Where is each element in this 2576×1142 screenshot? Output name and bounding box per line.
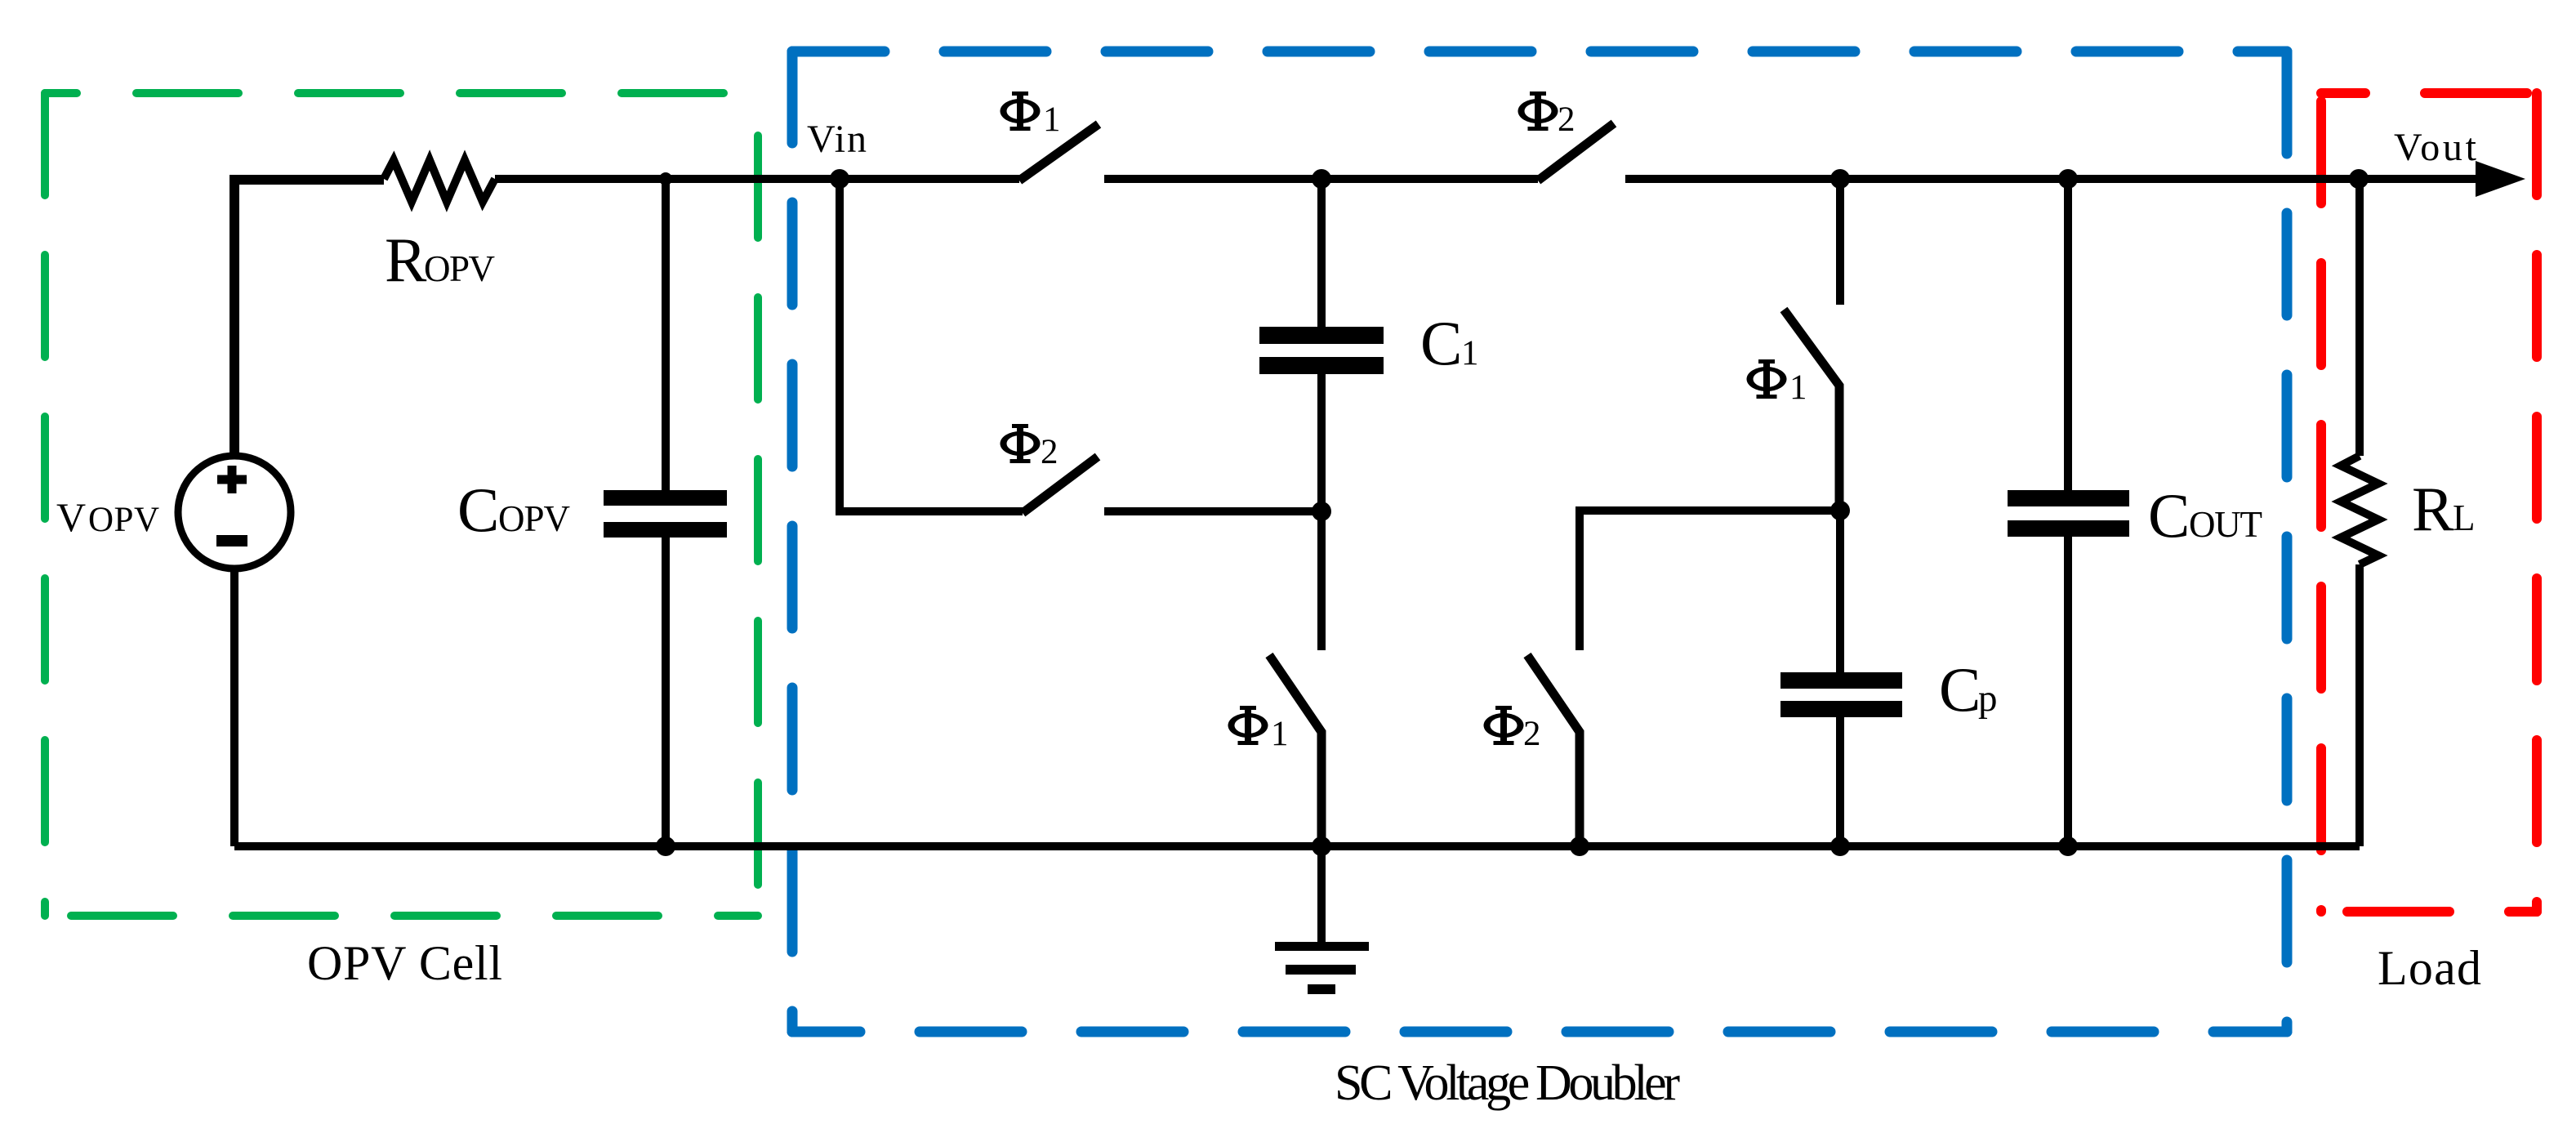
node: COUT bottom on rail <box>2058 836 2078 856</box>
wire: from top rail down to phi1 vertical switch <box>1836 179 1844 305</box>
svg-text:C: C <box>1939 654 1981 725</box>
node: Cp top <box>1830 501 1850 520</box>
node: COPV bottom on rail <box>656 836 675 856</box>
label phi1 vertical <box>1747 367 1787 391</box>
node: C1 bottom <box>1312 502 1331 521</box>
wire: bottom rail <box>234 842 2360 850</box>
node: Cp bottom on rail <box>1830 836 1850 856</box>
capacitor C1 <box>1259 327 1384 374</box>
svg-text:Load: Load <box>2378 941 2481 995</box>
svg-text:OPV Cell: OPV Cell <box>307 936 502 990</box>
wire: COUT top lead <box>2064 179 2072 490</box>
wire: COPV top lead <box>662 179 670 490</box>
svg-text:R: R <box>385 225 427 295</box>
wire: top rail from phi2 to vout arrow <box>1625 175 2479 183</box>
wire: COPV bottom lead <box>662 538 670 846</box>
svg-text:L: L <box>2453 497 2476 538</box>
switch phi1 bottom blade <box>1269 655 1321 846</box>
wire: mid row to C1 bottom node <box>1104 507 1321 515</box>
wire: third row from phi2 bottom up-corner to Cp node <box>1580 511 1840 650</box>
wire: top rail from resistor to switch phi1 pivot <box>495 175 1019 183</box>
wire: COUT bottom lead <box>2064 537 2072 846</box>
svg-text:1: 1 <box>1043 100 1061 139</box>
switch phi2 bottom blade <box>1527 655 1580 846</box>
wire: RL bottom lead to rail corner <box>2355 564 2364 846</box>
voltage source VOPV <box>178 456 291 569</box>
node Vin <box>830 169 849 189</box>
switch phi2 top blade <box>1538 123 1614 181</box>
switch phi1 top blade <box>1019 124 1099 181</box>
svg-text:R: R <box>2412 474 2454 544</box>
wire: top rail between phi1 and phi2 <box>1104 175 1538 183</box>
svg-text:1: 1 <box>1461 334 1479 372</box>
label phi2 mid <box>1001 431 1041 456</box>
node: top rail above phi1 vertical <box>1830 169 1850 189</box>
switch phi1 vertical blade <box>1784 310 1839 511</box>
Vout arrow <box>2476 161 2525 197</box>
switch phi2 mid blade <box>1023 457 1098 513</box>
capacitor COPV <box>604 490 727 538</box>
node: ground junction on rail <box>1312 836 1331 856</box>
wire: Cp top lead <box>1836 511 1844 672</box>
svg-text:OPV: OPV <box>424 248 495 289</box>
svg-text:2: 2 <box>1041 433 1058 471</box>
svg-text:C: C <box>457 475 499 545</box>
label phi2 bottom <box>1484 713 1524 738</box>
wire: VOPV bottom lead down to bottom rail <box>230 567 238 846</box>
svg-text:1: 1 <box>1271 715 1289 753</box>
label phi1 top <box>1001 99 1041 123</box>
node: COUT top <box>2058 169 2078 189</box>
svg-text:C: C <box>1420 308 1462 378</box>
wire: C1 bottom lead <box>1317 374 1326 511</box>
svg-text:OUT: OUT <box>2189 504 2262 545</box>
svg-text:OPV: OPV <box>88 501 159 539</box>
ground <box>1275 846 1369 994</box>
SC Voltage Doubler boundary (blue dashed box) <box>792 51 2287 1032</box>
svg-text:V: V <box>56 494 86 540</box>
wire: C1 top lead <box>1317 179 1326 327</box>
wire: Cp bottom lead <box>1836 717 1844 846</box>
capacitor COUT <box>2008 490 2129 537</box>
label phi1 bottom <box>1228 713 1268 738</box>
node: RL top <box>2349 169 2369 189</box>
wire: Vin branch down and right to phi2 mid pivot <box>840 179 1023 511</box>
svg-text:Vin: Vin <box>807 118 867 161</box>
svg-text:p: p <box>1978 677 1998 720</box>
svg-text:2: 2 <box>1523 715 1541 753</box>
node: COPV top junction <box>659 172 672 185</box>
svg-text:C: C <box>2148 480 2190 551</box>
resistor RL <box>2341 456 2378 564</box>
svg-text:SC Voltage Doubler: SC Voltage Doubler <box>1335 1055 1680 1111</box>
svg-text:1: 1 <box>1789 368 1807 407</box>
Load boundary (red dashed box) <box>2321 93 2537 912</box>
node: C1 top <box>1312 169 1331 189</box>
OPV Cell boundary (green dashed box) <box>45 93 758 916</box>
capacitor Cp <box>1780 672 1902 717</box>
label phi2 top <box>1518 99 1558 123</box>
svg-text:OPV: OPV <box>498 498 570 539</box>
wire: RL top lead <box>2355 179 2364 456</box>
resistor ROPV <box>384 160 495 202</box>
node: phi2 bottom on rail <box>1570 836 1589 856</box>
svg-text:2: 2 <box>1558 100 1575 139</box>
wire: left riser from VOPV top to top rail <box>234 180 384 457</box>
wire: C1 node down to phi1 bottom switch <box>1317 511 1326 650</box>
